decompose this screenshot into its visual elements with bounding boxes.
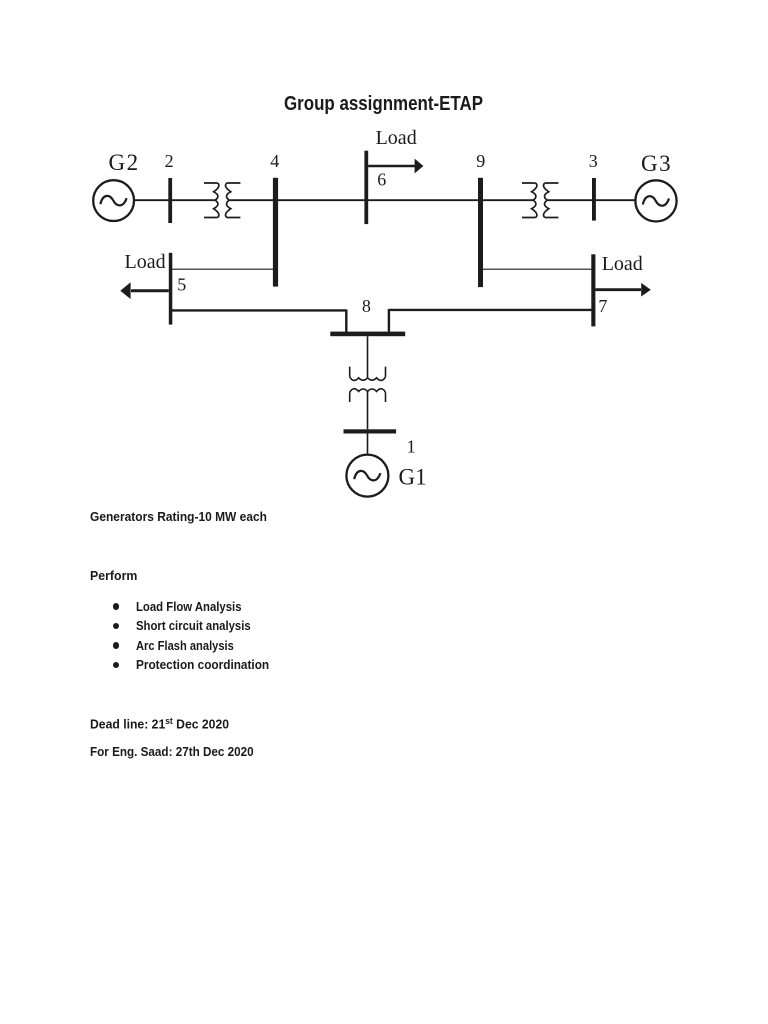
svg-text:4: 4 [270, 151, 279, 171]
svg-text:Load: Load [602, 253, 643, 275]
svg-text:G3: G3 [641, 151, 672, 176]
svg-text:G1: G1 [399, 465, 427, 490]
svg-text:5: 5 [177, 275, 186, 295]
svg-text:2: 2 [165, 151, 174, 171]
svg-text:3: 3 [589, 151, 598, 171]
svg-text:8: 8 [362, 296, 371, 316]
svg-text:7: 7 [598, 296, 607, 316]
svg-text:G2: G2 [109, 150, 140, 175]
svg-text:Load: Load [125, 251, 166, 273]
svg-text:9: 9 [476, 151, 485, 171]
svg-text:Load: Load [376, 127, 417, 149]
svg-text:6: 6 [377, 169, 386, 189]
svg-text:1: 1 [407, 436, 416, 456]
